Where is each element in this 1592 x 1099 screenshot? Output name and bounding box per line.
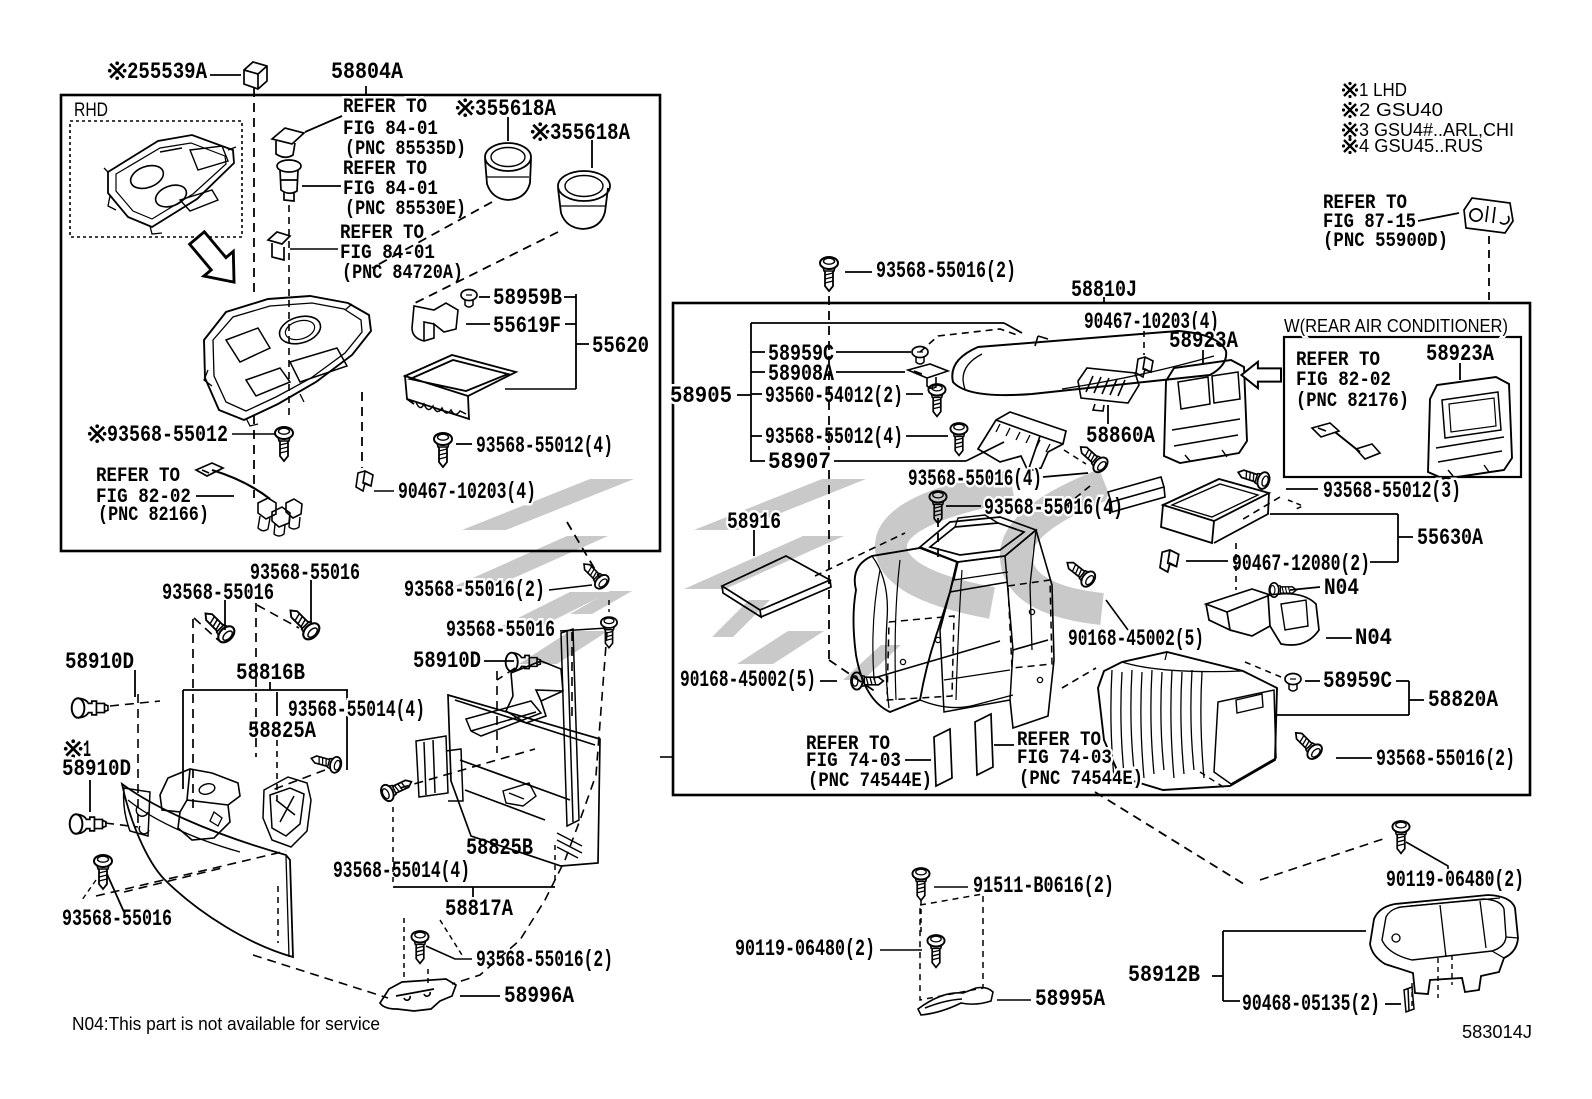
svg-text:1 LHD: 1 LHD bbox=[1359, 80, 1407, 100]
svg-text:58912B: 58912B bbox=[1128, 962, 1200, 988]
svg-text:RHD: RHD bbox=[74, 100, 108, 121]
svg-text:(PNC 85530E): (PNC 85530E) bbox=[345, 198, 466, 221]
svg-text:93568-55016(2): 93568-55016(2) bbox=[876, 258, 1016, 284]
svg-text:93568-55012: 93568-55012 bbox=[107, 422, 228, 448]
svg-text:58817A: 58817A bbox=[445, 896, 513, 922]
svg-text:58910D: 58910D bbox=[413, 648, 481, 674]
svg-text:58996A: 58996A bbox=[504, 983, 574, 1009]
svg-text:93568-55016: 93568-55016 bbox=[162, 580, 274, 606]
svg-text:91511-B0616(2): 91511-B0616(2) bbox=[973, 873, 1114, 899]
svg-text:93568-55012(3): 93568-55012(3) bbox=[1323, 478, 1461, 504]
svg-text:58907: 58907 bbox=[768, 449, 831, 475]
svg-text:93568-55016(4): 93568-55016(4) bbox=[908, 466, 1042, 492]
svg-text:58804A: 58804A bbox=[331, 59, 403, 85]
svg-text:93568-55016: 93568-55016 bbox=[62, 906, 172, 932]
svg-text:93568-55016(2): 93568-55016(2) bbox=[476, 947, 613, 973]
svg-text:4 GSU45..RUS: 4 GSU45..RUS bbox=[1359, 136, 1483, 156]
svg-text:N04:This part is not available: N04:This part is not available for servi… bbox=[72, 1014, 380, 1034]
svg-text:55619F: 55619F bbox=[493, 313, 561, 339]
svg-text:93568-55016(2): 93568-55016(2) bbox=[1376, 746, 1515, 772]
svg-text:90168-45002(5): 90168-45002(5) bbox=[680, 667, 816, 693]
svg-text:355618A: 355618A bbox=[475, 96, 556, 122]
svg-text:(PNC 82176): (PNC 82176) bbox=[1296, 390, 1409, 413]
svg-text:FIG 82-02: FIG 82-02 bbox=[1296, 369, 1391, 392]
svg-text:90119-06480(2): 90119-06480(2) bbox=[1386, 867, 1524, 893]
svg-text:REFER TO: REFER TO bbox=[96, 465, 180, 488]
svg-text:58959B: 58959B bbox=[493, 285, 562, 311]
svg-text:58910D: 58910D bbox=[62, 756, 131, 782]
svg-text:W(REAR AIR CONDITIONER): W(REAR AIR CONDITIONER) bbox=[1284, 316, 1508, 336]
svg-text:58820A: 58820A bbox=[1428, 687, 1498, 713]
svg-text:58910D: 58910D bbox=[65, 649, 134, 675]
svg-text:58825A: 58825A bbox=[248, 718, 316, 744]
svg-text:(PNC 55900D): (PNC 55900D) bbox=[1323, 230, 1448, 253]
svg-text:90468-05135(2): 90468-05135(2) bbox=[1242, 991, 1380, 1017]
svg-text:255539A: 255539A bbox=[127, 59, 207, 85]
svg-text:58825B: 58825B bbox=[466, 835, 533, 861]
svg-text:REFER TO: REFER TO bbox=[343, 96, 427, 119]
svg-text:(PNC 74544E): (PNC 74544E) bbox=[1019, 768, 1143, 791]
svg-text:58995A: 58995A bbox=[1035, 986, 1105, 1012]
svg-text:(PNC 84720A): (PNC 84720A) bbox=[342, 262, 463, 285]
svg-text:58959C: 58959C bbox=[1323, 668, 1392, 694]
svg-text:58860A: 58860A bbox=[1086, 423, 1155, 449]
svg-text:55620: 55620 bbox=[592, 333, 649, 359]
svg-text:90168-45002(5): 90168-45002(5) bbox=[1068, 626, 1204, 652]
svg-text:N04: N04 bbox=[1324, 575, 1359, 601]
svg-text:93568-55012(4): 93568-55012(4) bbox=[765, 424, 903, 450]
svg-text:355618A: 355618A bbox=[550, 120, 630, 146]
svg-text:N04: N04 bbox=[1355, 625, 1392, 651]
svg-text:583014J: 583014J bbox=[1462, 1022, 1532, 1042]
svg-text:93568-55016(2): 93568-55016(2) bbox=[404, 577, 545, 603]
svg-text:(PNC 74544E): (PNC 74544E) bbox=[808, 770, 932, 793]
svg-text:90119-06480(2): 90119-06480(2) bbox=[735, 936, 875, 962]
svg-text:93560-54012(2): 93560-54012(2) bbox=[765, 383, 903, 409]
svg-text:93568-55014(4): 93568-55014(4) bbox=[333, 858, 470, 884]
svg-text:90467-12080(2): 90467-12080(2) bbox=[1232, 551, 1370, 577]
svg-text:55630A: 55630A bbox=[1417, 525, 1483, 551]
svg-text:58905: 58905 bbox=[670, 383, 732, 409]
svg-text:(PNC 82166): (PNC 82166) bbox=[98, 504, 209, 527]
svg-text:90467-10203(4): 90467-10203(4) bbox=[398, 479, 536, 505]
svg-text:FIG 74-03: FIG 74-03 bbox=[1017, 747, 1112, 770]
svg-text:93568-55016: 93568-55016 bbox=[446, 617, 555, 643]
svg-text:93568-55016(4): 93568-55016(4) bbox=[984, 495, 1123, 521]
svg-text:2 GSU40: 2 GSU40 bbox=[1359, 100, 1443, 120]
svg-text:93568-55012(4): 93568-55012(4) bbox=[476, 433, 613, 459]
